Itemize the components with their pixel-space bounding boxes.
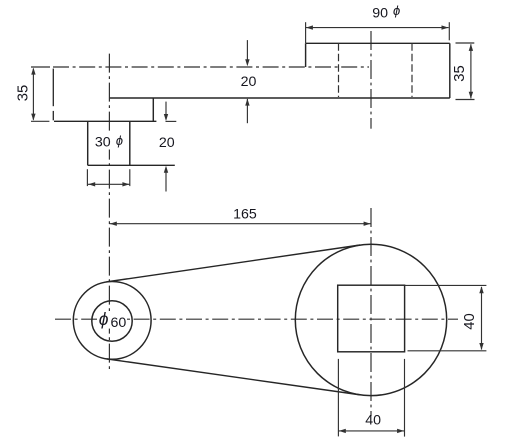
stub left edge <box>87 121 89 165</box>
dim 90 left extension <box>305 22 307 43</box>
svg-text:ϕ: ϕ <box>99 309 109 329</box>
dim 165 left arrow <box>110 222 117 226</box>
dim 35R top tick <box>456 42 475 44</box>
dim 35R line <box>470 44 472 98</box>
dim 40 bottom right arrow <box>397 429 404 433</box>
dim 35R top arrow <box>469 44 473 51</box>
centerline: right boss vertical axis (upper) <box>370 31 372 129</box>
dim 20 stub lower arrow line <box>165 168 167 192</box>
dim 20 arm upper arrow line <box>246 40 248 64</box>
dim 165 right arrow <box>364 222 371 226</box>
dim 40 bottom right extension <box>404 359 406 437</box>
square hole 40x40 <box>338 285 405 352</box>
dim 30 right arrow <box>122 182 129 186</box>
dim 35R bottom tick <box>456 99 475 101</box>
dim 90 right extension <box>448 22 450 40</box>
dim 40R bottom arrow <box>479 343 483 350</box>
dim 20 arm down arrow <box>245 59 249 66</box>
centerline: plan horizontal axis <box>55 318 458 320</box>
dim 40 bottom line <box>338 430 404 432</box>
svg-text:40: 40 <box>365 413 381 429</box>
small hub bore circle (30 dia) <box>92 301 132 341</box>
big boss circle (90 dia) <box>295 244 446 395</box>
dim 35L line <box>32 69 34 120</box>
hidden line: square hole right <box>411 43 413 97</box>
dim 40R top extension <box>405 284 487 286</box>
dim 20 stub upper arrow line <box>165 102 167 120</box>
hub left edge (broken) seg2 <box>52 111 54 120</box>
dim 40R line <box>481 287 483 350</box>
dim 30 left arrow <box>88 182 95 186</box>
upper tangent line (arm edge) <box>107 245 361 282</box>
dim 20 arm up arrow <box>245 99 249 106</box>
dim 40 bottom left arrow <box>339 429 346 433</box>
centerline: right boss vertical axis (lower) <box>370 208 372 416</box>
dim 35R bottom arrow <box>469 92 473 99</box>
dim 20 stub up arrow <box>164 166 168 173</box>
dim 35L top arrow <box>31 68 35 75</box>
stub right edge <box>129 121 131 165</box>
svg-text:20: 20 <box>159 135 175 151</box>
hub bottom edge <box>54 120 156 122</box>
svg-text:30: 30 <box>95 135 111 151</box>
chain line: arm top edge / axis y=67 <box>53 66 369 68</box>
arm/boss bottom edge <box>110 97 450 99</box>
centerline: left hub vertical axis <box>108 54 110 371</box>
dim 30 left extension <box>86 169 88 186</box>
svg-text:ϕ: ϕ <box>116 133 123 148</box>
dim 90 line <box>306 27 449 29</box>
dim 35L bottom arrow <box>31 114 35 121</box>
svg-text:165: 165 <box>233 206 257 222</box>
dim 20 stub down arrow <box>164 114 168 121</box>
svg-text:35: 35 <box>452 65 468 81</box>
small hub outer circle (60 dia) <box>73 282 151 360</box>
boss top edge <box>306 42 450 44</box>
svg-text:35: 35 <box>16 85 32 101</box>
svg-text:40: 40 <box>462 313 478 329</box>
svg-text:60: 60 <box>111 315 127 331</box>
dim 40R top arrow <box>479 286 483 293</box>
stub bottom edge + extension <box>88 164 175 166</box>
boss right edge <box>449 43 451 98</box>
dim 20 arm lower arrow line <box>246 99 248 123</box>
dim 35L bottom extension tick <box>31 120 49 122</box>
hidden line: square hole left <box>338 43 340 97</box>
hub left edge (broken) seg1 <box>52 69 54 107</box>
label 30phi backing <box>94 133 126 150</box>
dim 90 left arrow <box>306 25 313 29</box>
dim 40R bottom extension <box>408 350 487 352</box>
dim 40 bottom left extension <box>337 359 339 437</box>
step vertical: hub right edge below arm <box>152 98 154 121</box>
dim 35L top extension tick <box>31 66 50 68</box>
boss left edge <box>305 43 307 67</box>
dim 90 right arrow <box>442 25 449 29</box>
lower tangent line (arm edge) <box>107 359 361 395</box>
svg-text:20: 20 <box>241 74 257 90</box>
svg-text:90: 90 <box>372 5 388 21</box>
dim 30 line <box>88 183 130 185</box>
svg-text:ϕ: ϕ <box>393 3 400 18</box>
dim 165 line <box>109 223 371 225</box>
dim 20 stub tick <box>166 120 177 122</box>
label phi60 backing <box>97 312 126 329</box>
dim 30 right extension <box>129 169 131 186</box>
